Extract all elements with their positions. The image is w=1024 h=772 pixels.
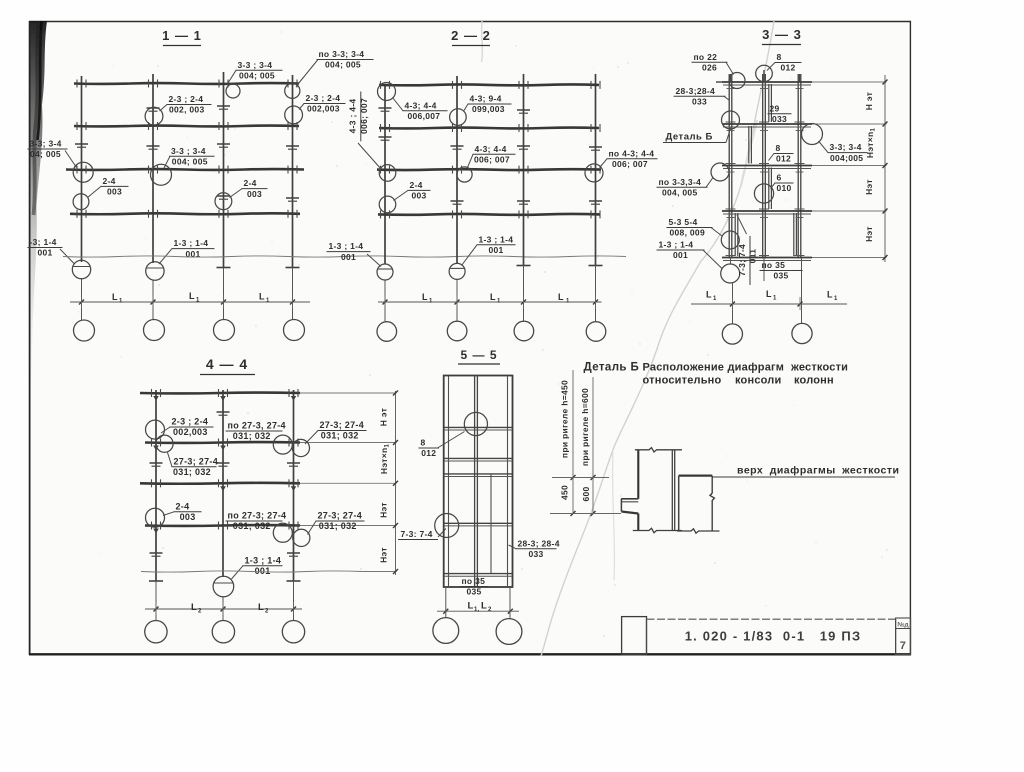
detail B diaphragm top edge (679, 475, 713, 477)
svg-text:1: 1 (566, 299, 570, 305)
svg-text:-3; 1-4: -3; 1-4 (30, 237, 57, 247)
svg-text:8: 8 (776, 143, 781, 153)
svg-text:3-3; 3-4: 3-3; 3-4 (30, 139, 62, 149)
scan smudge left edge (31, 21, 48, 395)
detail B column bottom edge with break (633, 528, 682, 532)
svg-text:2-3 ; 2-4: 2-3 ; 2-4 (306, 93, 341, 103)
detail B column top edge with break (635, 448, 682, 452)
svg-text:Нэт: Нэт (864, 179, 874, 195)
section 1-1 column C (217, 72, 231, 320)
paper speckles (79, 30, 888, 637)
label 3-3;3-4 004;005 top (1-1) (228, 60, 283, 83)
svg-text:верх диафрагмы жесткости: верх диафрагмы жесткости (737, 465, 899, 477)
detail B console left face (620, 499, 622, 512)
svg-text:006; 007: 006; 007 (612, 159, 648, 169)
label 27-3;27-4 031;032 r2 (4-4) (308, 511, 365, 535)
svg-text:004; 005: 004; 005 (172, 156, 208, 166)
svg-text:2-4: 2-4 (176, 501, 190, 511)
svg-text:27-3; 27-4: 27-3; 27-4 (174, 456, 219, 466)
svg-text:1: 1 (119, 299, 123, 305)
svg-text:L: L (258, 602, 264, 613)
svg-text:Деталь Б: Деталь Б (666, 132, 713, 143)
label po 4-3;4-4 006;007 (2-2) (601, 148, 658, 169)
section 1-1 column B (152, 74, 154, 320)
detail B column left face lower (637, 514, 639, 531)
section 5-5 center divider (475, 376, 478, 588)
svg-text:04; 005: 04; 005 (30, 149, 61, 159)
section 3-3 extension line level 1 (812, 81, 887, 83)
svg-text:диафрагм: диафрагм (728, 362, 785, 374)
svg-text:004;005: 004;005 (830, 153, 863, 163)
svg-text:по 35: по 35 (762, 260, 786, 270)
svg-text:3 — 3: 3 — 3 (762, 27, 802, 42)
svg-text:7-3; 7-4: 7-3; 7-4 (737, 244, 747, 276)
svg-text:001: 001 (673, 250, 688, 260)
section 4-4 weld triangles row1 (153, 396, 296, 401)
section 3-3 column A lower stem and base circle (721, 259, 740, 325)
section 3-3 floor slab level 2 (722, 124, 812, 127)
section 4-4 column B (222, 390, 224, 621)
svg-text:003: 003 (107, 187, 122, 197)
svg-text:012: 012 (421, 448, 436, 458)
svg-text:при ригеле h=450: при ригеле h=450 (560, 380, 570, 458)
section 3-3 extension line level 2 (812, 123, 887, 125)
svg-text:002, 003: 002, 003 (169, 105, 205, 115)
svg-text:L: L (706, 290, 712, 300)
ground line across 1-1 and 2-2 (63, 256, 626, 257)
section 1-1 beam level 1 (74, 80, 299, 88)
svg-text:1: 1 (497, 299, 501, 305)
svg-text:Расположение: Расположение (643, 362, 725, 374)
section 1-1 grid bubbles (74, 320, 305, 342)
svg-text:031; 032: 031; 032 (319, 521, 357, 531)
section 4-4 beam level 4 (145, 522, 300, 530)
label vertical 7-3;7-4 011 (3-3) (737, 215, 758, 285)
svg-text:1-3 ; 1-4: 1-3 ; 1-4 (659, 240, 694, 250)
svg-text:L: L (422, 292, 428, 302)
label 8 012 (5-5) (419, 432, 465, 459)
svg-text:012: 012 (776, 154, 791, 164)
svg-text:004, 005: 004, 005 (662, 188, 698, 198)
section 5-5 grid bubbles (433, 618, 522, 645)
section 3-3 joint circle col A level4-5 (721, 231, 739, 249)
section 5-5 horizontal divider 2 (444, 458, 513, 461)
section 4-4 right dimension line vertical (393, 391, 398, 576)
dim tick bottom (550, 513, 621, 515)
label 4-3;4-4 006,007 (2-2) (393, 98, 448, 122)
section 3-3 title (762, 27, 802, 45)
label 2-4 003 (4-4) (163, 501, 202, 522)
svg-text:001: 001 (489, 245, 504, 255)
svg-text:010: 010 (777, 183, 792, 193)
svg-text:при ригеле h=600: при ригеле h=600 (580, 388, 590, 466)
label Detail B (3-3) (663, 127, 731, 143)
fold crease top small (481, 21, 484, 62)
svg-text:Н эт: Н эт (864, 92, 874, 110)
section 5-5 joint circle center (464, 412, 487, 435)
label 6 010 (3-3) (771, 173, 794, 194)
section 3-3 floor slab level 5 (722, 258, 812, 261)
label po 35 035 (3-3) (760, 260, 803, 281)
section 3-3 joint circle top col B (756, 65, 773, 82)
section 3-3 diaphragm panel row2 (749, 126, 752, 164)
svg-text:450: 450 (560, 485, 570, 500)
label verh diafragmy zhestkosti (712, 465, 899, 478)
section 3-3 column A (double line) (729, 74, 732, 259)
svg-text:003: 003 (412, 191, 427, 201)
section 3-3 floor slab level 3 (722, 166, 812, 169)
label vertical 4-3;4-4 006;007 (2-2) (348, 92, 382, 170)
section 1-1 joint circle col D top (285, 83, 300, 98)
svg-text:4-3; 4-4: 4-3; 4-4 (475, 144, 507, 154)
svg-text:Деталь Б: Деталь Б (584, 362, 640, 374)
svg-text:по 3-3,3-4: по 3-3,3-4 (659, 177, 702, 187)
section 2-2 joint circle col B level2 (450, 109, 467, 126)
svg-text:003: 003 (247, 189, 262, 199)
svg-text:031; 032: 031; 032 (321, 431, 359, 441)
title block main box (647, 619, 896, 655)
section 2-2 column D (589, 74, 603, 321)
detail B console top (double) (621, 499, 638, 502)
section 3-3 diaphragm panel row3 (769, 168, 772, 210)
section 3-3 diaphragm panel row1 (769, 84, 772, 122)
section 3-3 right dimension line vertical (883, 75, 888, 262)
section 4-4 joint circle col A level4 (146, 508, 165, 527)
section 3-3 extension line level 4 (812, 210, 887, 212)
detail B diaphragm left face (678, 476, 680, 531)
section 5-5 outer box (444, 376, 513, 588)
detail B diaphragm bottom edge with break (677, 529, 720, 533)
svg-text:относительно: относительно (643, 375, 722, 387)
label 2-4 003 right (1-1) (230, 178, 268, 199)
section 4-4 beam level 2 (145, 439, 300, 447)
section 3-3 column C lower stem (801, 259, 803, 324)
svg-text:консоли: консоли (735, 375, 781, 387)
section 5-5 joint circle left (435, 514, 459, 538)
svg-text:1-3 ; 1-4: 1-3 ; 1-4 (174, 238, 209, 248)
svg-text:L: L (558, 292, 564, 302)
section 4-4 dimension line bottom (145, 602, 302, 615)
title block right box (896, 618, 911, 655)
svg-text:L: L (827, 290, 833, 300)
section 3-3 joint circle level2 right (802, 124, 823, 145)
svg-text:по 22: по 22 (694, 52, 718, 62)
svg-text:8: 8 (421, 438, 426, 448)
svg-text:1. 020 - 1/83 0-1 19 ПЗ: 1. 020 - 1/83 0-1 19 ПЗ (685, 629, 862, 644)
svg-text:Нэт: Нэт (379, 502, 389, 518)
section 3-3 extension line level 5 (812, 257, 887, 259)
label 2-4 003 left (1-1) (88, 176, 129, 198)
svg-text:1 — 1: 1 — 1 (162, 28, 202, 43)
label 1-3;1-4 001 mid (2-2) (462, 234, 516, 265)
section 5-5 horizontal divider 3 (444, 474, 513, 477)
label 1-3;1-4 001 (1-1) (159, 238, 215, 264)
section 1-1 joint circle col C top (226, 84, 240, 98)
section 2-2 beam level 2 (379, 124, 600, 132)
section 3-3 joint circle top col A (729, 73, 745, 89)
section 5-5 inner vertical row4 (490, 524, 492, 573)
svg-text:033: 033 (772, 114, 787, 124)
section 5-5 dimension line (437, 609, 519, 614)
svg-text:1-3 ; 1-4: 1-3 ; 1-4 (245, 555, 282, 565)
svg-text:001: 001 (255, 566, 271, 576)
label 2-3;2-4 002,003 (4-4) (161, 417, 214, 438)
section 3-3 extension line level 3 (812, 165, 887, 167)
section 4-4 joint circles col C level4 (273, 523, 310, 546)
dim tick top (552, 477, 609, 479)
svg-text:2 — 2: 2 — 2 (451, 28, 491, 43)
section 4-4 weld triangles row2 (153, 446, 226, 451)
section 3-3 column C (double line) (798, 74, 801, 259)
svg-text:27-3; 27-4: 27-3; 27-4 (318, 511, 363, 521)
svg-text:006,007: 006,007 (408, 111, 441, 121)
label 2-3;2-4 002,003 left (1-1) (160, 94, 212, 115)
section 2-2 title (451, 28, 491, 46)
svg-text:004; 005: 004; 005 (325, 60, 361, 70)
svg-text:2-4: 2-4 (103, 176, 116, 186)
svg-text:2-3 ; 2-4: 2-3 ; 2-4 (172, 417, 209, 427)
section 5-5 horizontal divider 4 (444, 523, 513, 526)
svg-text:по 27-3, 27-4: по 27-3, 27-4 (228, 421, 286, 431)
section 3-3 detail B circle (722, 111, 740, 129)
section 4-4 column C (287, 390, 301, 621)
label 29 033 (3-3) (768, 103, 792, 124)
label 8 012 mid (3-3) (769, 143, 794, 164)
label 2-4 003 (2-2) (394, 180, 431, 201)
svg-text:1: 1 (429, 299, 433, 305)
label 1-3;1-4 001 left (2-2) (327, 241, 382, 266)
svg-text:004; 005: 004; 005 (239, 71, 275, 81)
section 2-2 base circle col B (449, 263, 465, 279)
svg-text:008, 009: 008, 009 (670, 228, 706, 238)
svg-text:1: 1 (196, 298, 200, 304)
section 1-1 beam level 4 (70, 210, 300, 218)
svg-text:011: 011 (748, 249, 758, 264)
label 4-3;4-4 006;007 mid (2-2) (468, 144, 516, 168)
section 4-4 joint circle col A level2a (146, 420, 165, 439)
label 3-3;3-4 cut at border (1-1) (28, 139, 77, 168)
label 1-3;1-4 001 (3-3) (657, 240, 723, 269)
section 1-1 column splices (75, 106, 299, 201)
svg-text:031; 032: 031; 032 (173, 467, 211, 477)
section 3-3 joint circle col B mid (754, 184, 773, 203)
section 1-1 column D (286, 75, 300, 320)
section 4-4 grid bubbles (145, 621, 305, 643)
label 8 012 top (3-3) (767, 52, 802, 73)
sheet border frame (29, 21, 911, 655)
fold crease center (541, 21, 774, 656)
label 28-3;28-4 033 (5-5) (509, 538, 560, 559)
svg-text:5-3 5-4: 5-3 5-4 (669, 217, 698, 227)
section 2-2 beam level 4 (378, 210, 600, 218)
section 3-3 column B lower stem (763, 259, 765, 282)
svg-text:7: 7 (900, 640, 906, 652)
label 1-3;1-4 001 (4-4) (232, 555, 283, 579)
label po 35 035 (5-5) (460, 576, 489, 597)
svg-text:2: 2 (488, 607, 492, 613)
detail B console bottom (621, 512, 638, 514)
section 2-2 beam level 1 (379, 81, 600, 89)
section 5-5 horizontal divider 5 (444, 574, 513, 577)
svg-text:6: 6 (777, 173, 782, 183)
section 4-4 base circle col B (213, 576, 234, 597)
svg-text:002,003: 002,003 (307, 104, 340, 114)
svg-text:006; 007: 006; 007 (474, 155, 510, 165)
svg-text:035: 035 (774, 271, 789, 281)
svg-text:4 — 4: 4 — 4 (206, 356, 248, 372)
svg-text:3-3 ; 3-4: 3-3 ; 3-4 (238, 60, 273, 70)
section 3-3 bottom dimension line (691, 297, 847, 310)
section 4-4 beam level 1 (140, 389, 300, 397)
svg-text:№д: №д (897, 622, 908, 629)
svg-text:L: L (490, 292, 496, 302)
svg-text:031; 032: 031; 032 (233, 431, 271, 441)
svg-text:L: L (468, 601, 474, 612)
section 3-3 diaphragm panel row4 left (735, 213, 738, 256)
svg-text:1: 1 (773, 296, 777, 302)
section 2-2 beam level 3 (377, 166, 601, 174)
label 3-3;3-4 004;005 mid (1-1) (164, 146, 215, 168)
svg-text:1,: 1, (474, 607, 480, 613)
dim chain line h450 (571, 370, 576, 516)
section 1-1 beam level 3 (66, 166, 304, 174)
svg-text:2-4: 2-4 (244, 178, 257, 188)
svg-text:5 — 5: 5 — 5 (460, 348, 497, 362)
svg-text:4-3; 9-4: 4-3; 9-4 (470, 94, 502, 104)
svg-text:по 27-3; 27-4: по 27-3; 27-4 (228, 511, 287, 521)
section 3-3 grid bubbles (722, 323, 812, 344)
svg-text:L: L (481, 601, 487, 612)
detail B column right face (double) (672, 450, 674, 531)
svg-text:4-3 ; 4-4: 4-3 ; 4-4 (348, 99, 358, 134)
label 2-3;2-4 002,003 right (1-1) (299, 93, 346, 114)
section 1-1 base circle col A (72, 260, 90, 278)
section 2-2 joint circle col B level3 (457, 167, 472, 182)
svg-text:L: L (259, 292, 265, 302)
svg-text:1: 1 (713, 296, 717, 302)
section 1-1 base circle col B (146, 262, 164, 280)
svg-text:1: 1 (266, 298, 270, 304)
section 1-1 joint circle col B level2 (145, 107, 163, 125)
label 28-3;28-4 033 (3-3) (674, 86, 730, 107)
svg-text:3-3 ; 3-4: 3-3 ; 3-4 (171, 146, 206, 156)
section 2-2 column B (456, 76, 458, 321)
section 3-3 diaphragm panel row4 right (794, 213, 797, 256)
paper sheet (29, 21, 911, 655)
section 3-3 top stubs (716, 70, 800, 82)
svg-text:1-3 ; 1-4: 1-3 ; 1-4 (479, 234, 514, 244)
svg-text:2: 2 (198, 609, 202, 615)
svg-text:28-3; 28-4: 28-3; 28-4 (518, 538, 560, 548)
svg-text:по 4-3; 4-4: по 4-3; 4-4 (609, 148, 655, 158)
svg-text:колонн: колонн (794, 375, 834, 387)
detail B diaphragm right face with break (710, 476, 714, 531)
section 2-2 base circle col A (377, 264, 393, 280)
svg-text:026: 026 (702, 62, 717, 72)
svg-text:2: 2 (265, 609, 269, 615)
svg-text:по 3-3; 3-4: по 3-3; 3-4 (319, 49, 365, 59)
section 2-2 joint circle col D level3 (585, 164, 603, 182)
section 5-5 title (458, 348, 500, 364)
section 4-4 joint circle col A level2b (156, 435, 173, 452)
section 1-1 joint circle col C level4 (215, 193, 232, 210)
svg-text:L: L (189, 291, 195, 301)
svg-text:L: L (112, 292, 118, 302)
svg-text:099,003: 099,003 (472, 104, 505, 114)
label 3-3;3-4 004;005 right (3-3) (819, 141, 868, 163)
svg-text:жесткости: жесткости (790, 362, 848, 374)
label po 3-3,3-4 004,005 (3-3) (657, 177, 714, 198)
svg-text:Нэт: Нэт (379, 547, 389, 563)
section 2-2 column A (384, 84, 386, 321)
dim chain line h600 (591, 377, 596, 516)
svg-text:Нэт×n1: Нэт×n1 (865, 128, 877, 159)
section 4-4 ground line (141, 571, 362, 572)
svg-text:2-3 ; 2-4: 2-3 ; 2-4 (169, 94, 204, 104)
section 5-5 column stems to bubbles (446, 587, 510, 619)
svg-text:по 35: по 35 (462, 576, 486, 586)
section 4-4 weld triangles row3 (220, 486, 296, 491)
section 1-1 joint circle col D level2 (285, 106, 303, 124)
svg-text:001: 001 (341, 252, 356, 262)
svg-text:8: 8 (777, 52, 782, 62)
svg-text:012: 012 (781, 63, 796, 73)
label 27-3;27-4 031;032 r1 (4-4) (305, 420, 367, 444)
section 4-4 extension lines to dim (300, 393, 397, 572)
svg-text:4-3; 4-4: 4-3; 4-4 (405, 100, 437, 110)
section 1-1 dimension line (70, 295, 310, 308)
svg-text:3-3; 3-4: 3-3; 3-4 (830, 142, 862, 152)
svg-text:033: 033 (529, 549, 544, 559)
section 3-3 small joint ticks (726, 89, 805, 256)
svg-text:033: 033 (692, 97, 707, 107)
svg-text:L: L (191, 602, 197, 613)
section 1-1 beam level 2 (74, 122, 299, 130)
detail B column left face upper (637, 450, 639, 499)
svg-text:2-4: 2-4 (410, 180, 423, 190)
svg-text:Нэт×n1: Нэт×n1 (379, 444, 391, 475)
section 3-3 joint circle level3 col A (711, 163, 729, 181)
svg-text:L: L (766, 289, 772, 299)
section 4-4 beam level 3 (140, 479, 300, 487)
section 3-3 column B (double line) (763, 74, 766, 259)
svg-text:001: 001 (38, 248, 53, 258)
svg-text:002,003: 002,003 (173, 427, 208, 437)
svg-text:27-3; 27-4: 27-3; 27-4 (320, 420, 365, 430)
section 2-2 column C (517, 74, 531, 321)
section 3-3 floor slab level 1 (722, 82, 812, 85)
section 2-2 joint circle col A top (378, 83, 396, 101)
svg-text:600: 600 (581, 486, 591, 501)
section 2-2 dimension line (378, 295, 602, 308)
svg-text:003: 003 (180, 512, 196, 522)
section 1-1 joint circle col A level3 (73, 162, 93, 182)
section 5-5 horizontal divider 1 (444, 427, 513, 430)
section 1-1 title (162, 28, 202, 46)
label po 27-3,27-4 031;032 top (4-4) (226, 421, 286, 442)
label 5-3 5-4 008,009 (3-3) (667, 217, 723, 238)
section 2-2 joint circle col A level3 (379, 165, 396, 182)
section 1-1 joint circle col B level3 (151, 164, 172, 185)
svg-text:Н эт: Н эт (379, 408, 389, 426)
label po 22 026 (3-3) (692, 52, 734, 75)
label 7-3;7-4 between 4-4 and 5-5 (398, 529, 446, 540)
section 4-4 column splices (150, 412, 301, 556)
section 2-2 joint circle col A level4 (379, 196, 396, 213)
section 5-5 inner vertical row3 (490, 475, 492, 523)
label po 27-3;27-4 031;032 bottom (4-4) (226, 511, 287, 532)
svg-text:28-3;28-4: 28-3;28-4 (676, 86, 716, 96)
